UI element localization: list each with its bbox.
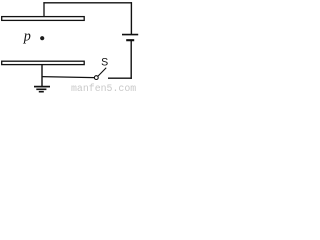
svg-text:S: S — [101, 57, 108, 69]
svg-text:p: p — [23, 29, 31, 45]
svg-text:manfen5.com: manfen5.com — [71, 83, 136, 93]
